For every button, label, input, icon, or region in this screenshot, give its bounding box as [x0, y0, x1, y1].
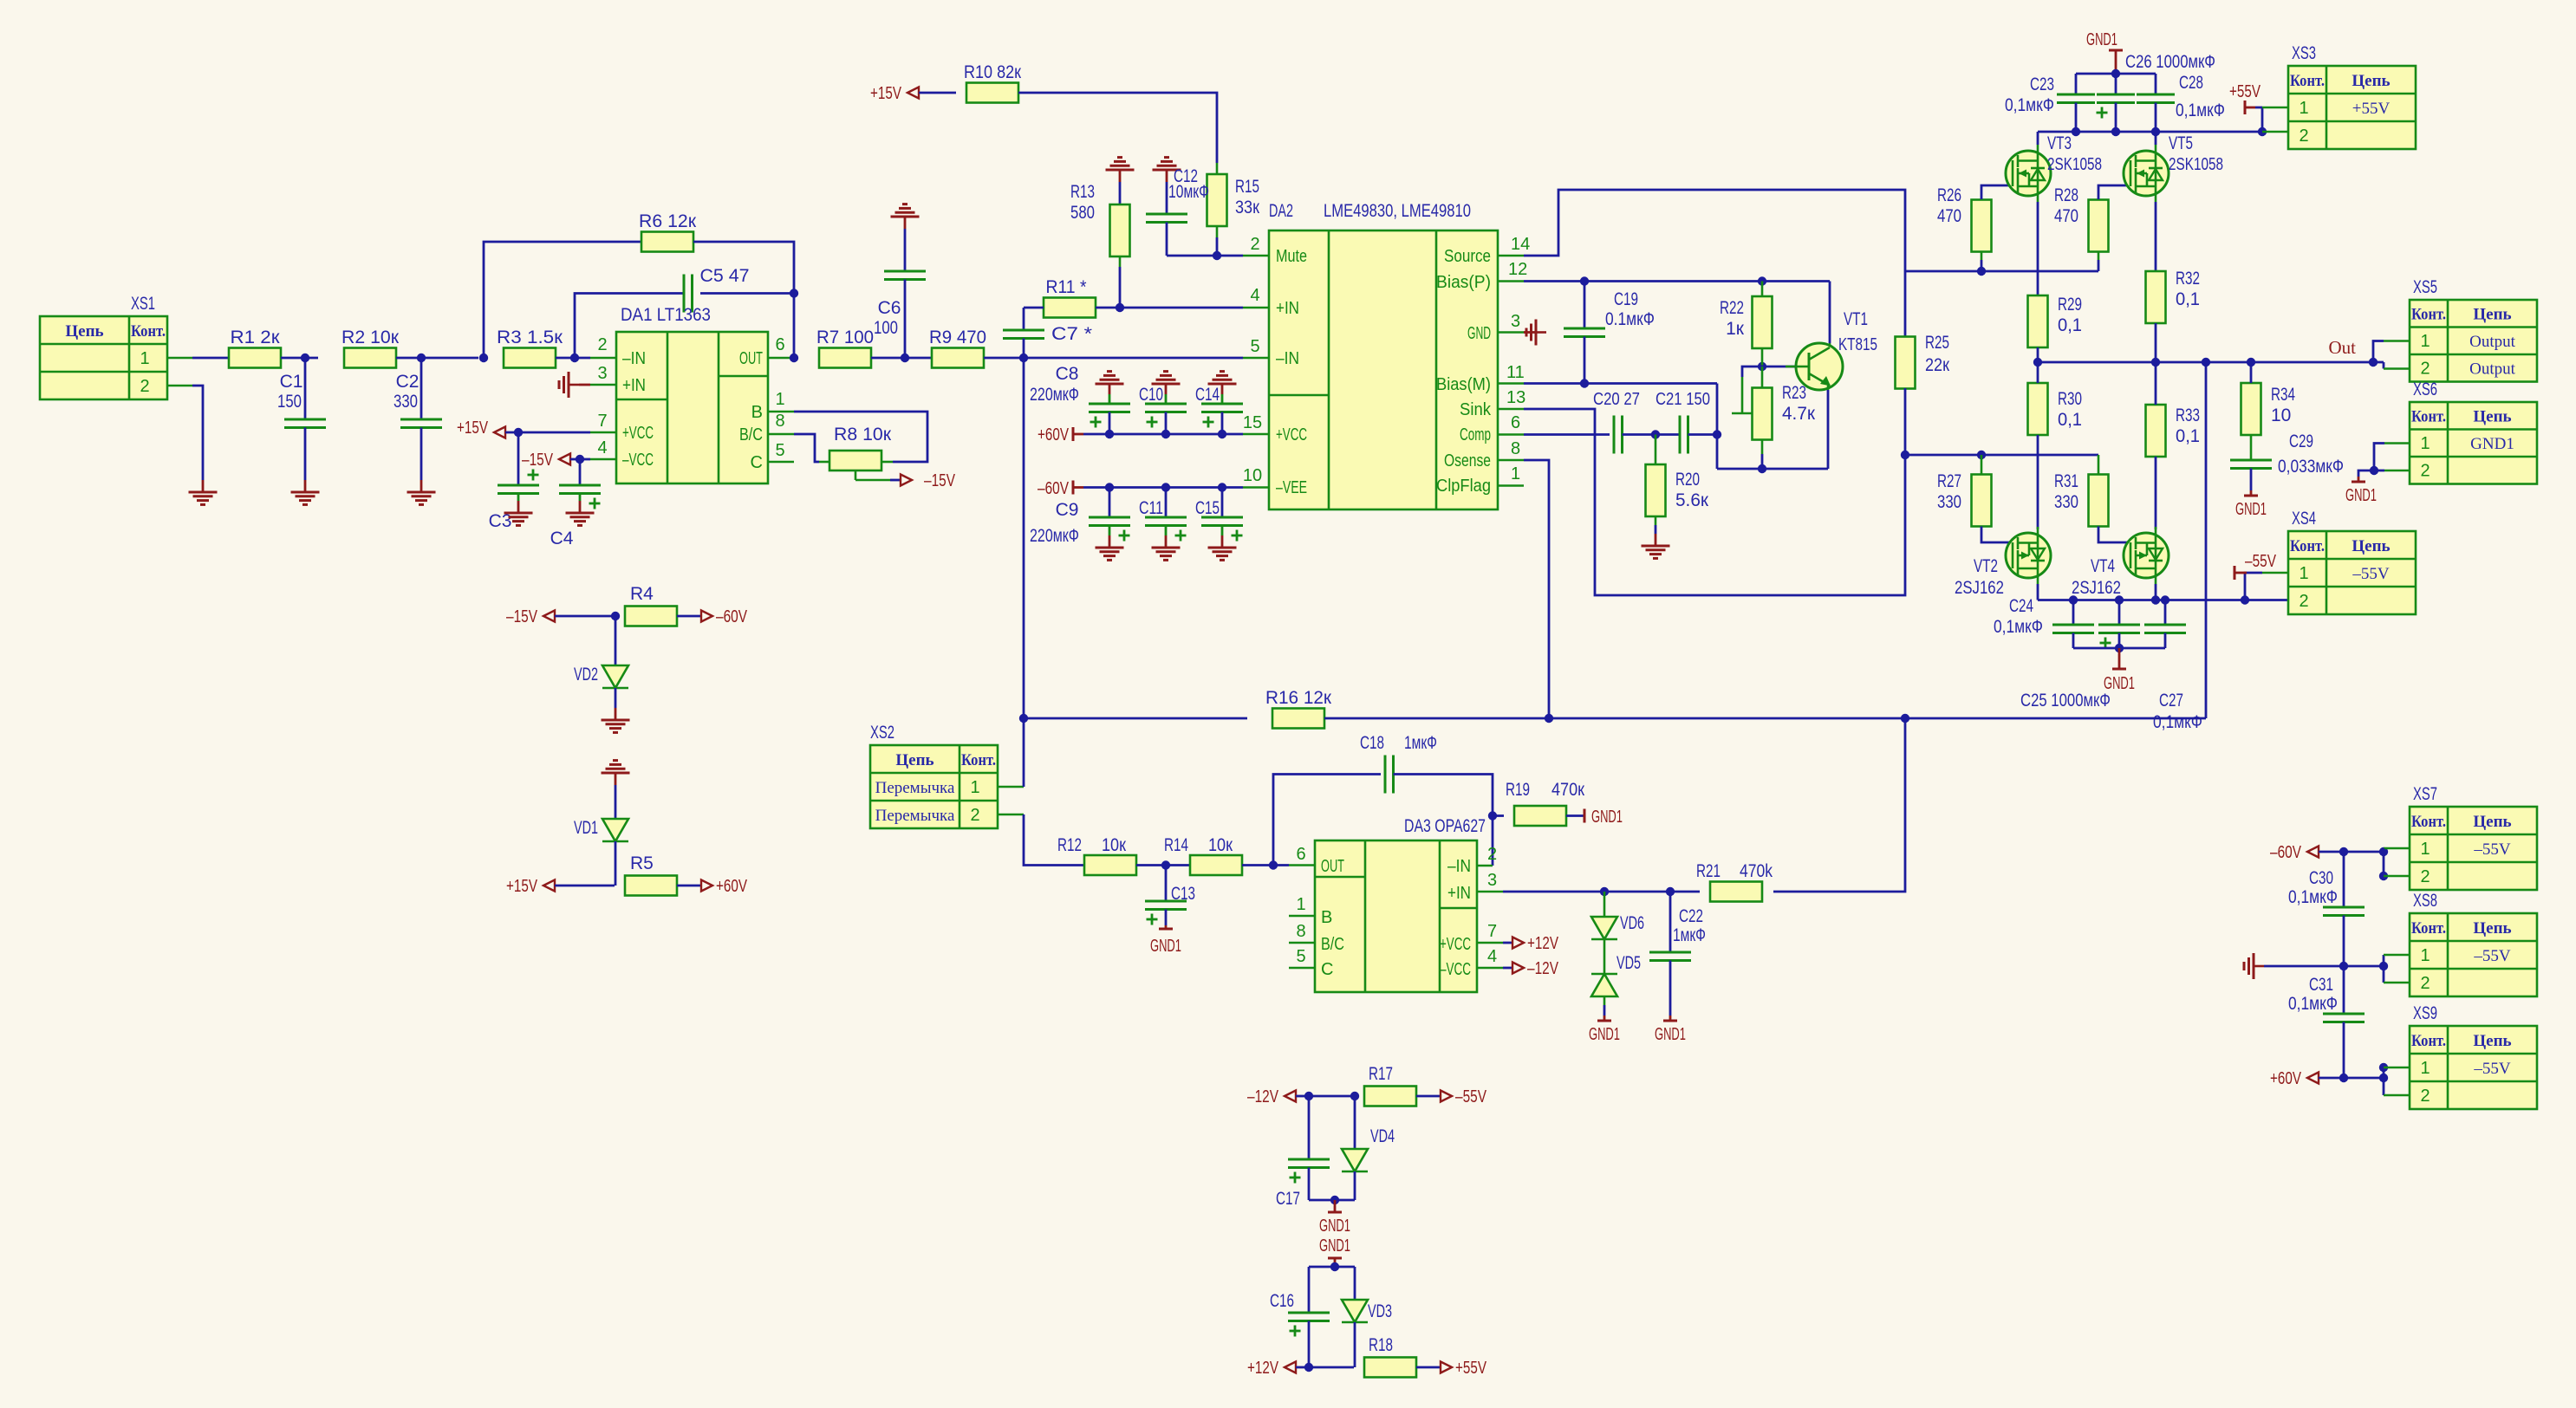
svg-text:C: C	[751, 453, 763, 472]
svg-text:470: 470	[1937, 206, 1961, 226]
svg-text:5: 5	[775, 441, 784, 460]
ground for C2	[407, 491, 436, 494]
svg-text:VD4: VD4	[1370, 1126, 1395, 1146]
svg-text:XS3: XS3	[2292, 43, 2316, 63]
svg-text:DA3 OPA627: DA3 OPA627	[1404, 816, 1486, 836]
capacitor C4	[579, 459, 582, 485]
svg-text:XS9: XS9	[2413, 1003, 2437, 1023]
svg-text:R1 2к: R1 2к	[231, 328, 281, 347]
svg-text:7: 7	[597, 412, 607, 431]
wire DA1 OUT to R7	[768, 357, 794, 360]
resistor R31 vertical	[2089, 475, 2109, 527]
svg-text:Конт.: Конт.	[131, 322, 166, 341]
svg-text:R4: R4	[630, 584, 654, 604]
wire R19 line	[1493, 814, 1504, 817]
svg-text:2: 2	[2420, 360, 2430, 379]
resistor R2	[344, 348, 396, 368]
resistor R5	[625, 876, 677, 896]
wire C5 right leg	[700, 292, 794, 295]
svg-text:XS6: XS6	[2413, 380, 2437, 399]
svg-text:2: 2	[597, 335, 607, 354]
svg-text:10мкФ: 10мкФ	[1168, 182, 1209, 202]
diode VD1	[615, 773, 617, 785]
wire Bias(M) pin11	[1498, 382, 1524, 385]
svg-text:C5 47: C5 47	[700, 266, 750, 286]
svg-text:R33: R33	[2176, 406, 2200, 425]
connector XS7	[2410, 807, 2537, 890]
wire DA1 pin8 B/C to R8	[768, 433, 794, 436]
svg-text:R22: R22	[1720, 298, 1744, 318]
wire Sink pin13	[1498, 408, 1524, 411]
svg-text:8: 8	[775, 412, 784, 431]
svg-text:GND1: GND1	[1150, 937, 1181, 956]
capacitor C6 with ground above	[891, 216, 920, 218]
svg-text:Конт.: Конт.	[2411, 1032, 2446, 1050]
svg-text:C4: C4	[550, 529, 574, 548]
GND1 under C29	[2244, 495, 2258, 497]
wire C21 to emitter node	[1688, 433, 1718, 436]
capacitor C17 polarized	[1308, 1096, 1311, 1159]
svg-text:Source: Source	[1444, 247, 1491, 266]
svg-text:VD2: VD2	[574, 665, 598, 685]
svg-text:OUT: OUT	[1321, 857, 1344, 876]
wire R11 left to C7 node	[1024, 307, 1044, 309]
wire C5 left leg	[575, 294, 684, 359]
capacitor C27	[2164, 600, 2167, 626]
svg-text:6: 6	[1296, 845, 1305, 864]
-55V rail	[2038, 599, 2288, 601]
gate bias rail top	[1905, 270, 2098, 273]
svg-text:R19: R19	[1506, 780, 1530, 800]
wire R15 bottom to Mute line	[1216, 226, 1219, 237]
svg-text:–60V: –60V	[1038, 479, 1070, 498]
ground above C12	[1153, 169, 1181, 172]
svg-text:2: 2	[2299, 592, 2308, 611]
gate bias rail bottom	[1905, 454, 2098, 457]
junction node C1	[301, 354, 309, 362]
svg-text:–60V: –60V	[716, 607, 748, 626]
svg-text:GND1: GND1	[1319, 1236, 1350, 1256]
wire to XS3 pin1	[2261, 107, 2264, 132]
wire Bias(P) corner down to VT1 collector	[1829, 282, 1831, 344]
capacitor C21	[1679, 416, 1682, 454]
wire DA3 -IN pin2	[1477, 865, 1493, 867]
svg-text:5: 5	[1250, 337, 1259, 356]
svg-text:C27: C27	[2159, 691, 2183, 710]
junction R13-+IN	[1116, 303, 1124, 312]
svg-text:1: 1	[2420, 434, 2430, 453]
capacitor C1	[304, 358, 307, 419]
wire XS1 pin1 to R1	[167, 357, 192, 360]
svg-text:+IN: +IN	[1276, 299, 1299, 318]
svg-text:VD5: VD5	[1617, 953, 1641, 973]
svg-text:–IN: –IN	[1276, 349, 1299, 368]
svg-text:B: B	[1321, 908, 1332, 927]
resistor R1	[229, 348, 281, 368]
wire XS6 pins to GND1	[2384, 442, 2410, 444]
resistor R26 vertical	[1972, 200, 1992, 252]
resistor R17	[1354, 1095, 1355, 1098]
+55V arrow right of R18	[1416, 1366, 1441, 1369]
svg-text:C14: C14	[1195, 385, 1220, 405]
svg-text:–VCC: –VCC	[1440, 960, 1471, 979]
svg-text:1: 1	[140, 349, 149, 368]
svg-text:C17: C17	[1276, 1189, 1300, 1209]
svg-text:C28: C28	[2179, 73, 2203, 93]
GND1 below C17/VD4	[1309, 1199, 1355, 1202]
junction R4-VD2	[611, 612, 620, 620]
svg-text:1: 1	[2420, 332, 2430, 351]
svg-text:C2: C2	[396, 372, 420, 392]
wire VT5 source down to R32	[2155, 202, 2157, 272]
svg-text:R13: R13	[1070, 182, 1095, 202]
wire DA3 +VCC to +12V	[1477, 942, 1503, 944]
wire Out to XS5	[2373, 341, 2384, 363]
resistor R10 82k	[966, 83, 1018, 103]
svg-text:470k: 470k	[1740, 861, 1773, 881]
wire VD5 to GND1	[1603, 996, 1606, 1005]
svg-text:Цепь: Цепь	[2352, 537, 2390, 555]
wire R20 bottom to ground	[1655, 516, 1657, 525]
svg-text:14: 14	[1511, 235, 1530, 254]
svg-text:+IN: +IN	[1447, 884, 1471, 903]
IC DA3 OPA627	[1315, 840, 1477, 992]
svg-text:Перемычка: Перемычка	[875, 807, 955, 825]
svg-text:0,1мкФ: 0,1мкФ	[2176, 101, 2225, 120]
wire DA3 -VCC to -12V	[1477, 967, 1503, 970]
wire VT4 drain to -55V rail	[2155, 584, 2157, 600]
junction node feedback R6	[479, 354, 488, 362]
wire R28 top to VT5 gate	[2098, 185, 2130, 199]
capacitor C5	[683, 275, 686, 313]
svg-text:Цепь: Цепь	[2473, 813, 2511, 831]
MOSFET VT5 2SK1058	[2124, 151, 2169, 196]
wire R29 bottom to Out line	[2037, 347, 2039, 362]
svg-text:Comp: Comp	[1460, 425, 1491, 444]
svg-text:B/C: B/C	[739, 425, 763, 444]
svg-text:+55V: +55V	[1455, 1359, 1487, 1378]
MOSFET VT2 2SJ162	[2006, 533, 2051, 578]
svg-text:–15V: –15V	[924, 471, 956, 490]
junction node C5 left	[570, 354, 579, 362]
svg-text:Bias(M): Bias(M)	[1436, 375, 1491, 394]
connector XS6	[2410, 402, 2537, 484]
svg-text:R8 10к: R8 10к	[834, 425, 892, 444]
wire R3 to DA1 -IN	[556, 357, 590, 360]
junction C19 bottom	[1580, 379, 1589, 387]
svg-text:C10: C10	[1139, 385, 1163, 405]
wire R12 to R14	[1136, 864, 1190, 866]
junction C22	[1666, 887, 1675, 896]
resistor R12	[1084, 855, 1136, 875]
svg-text:0,1мкФ: 0,1мкФ	[2288, 887, 2338, 907]
svg-text:C1: C1	[280, 372, 303, 392]
svg-text:C: C	[1321, 960, 1333, 979]
wire R14 to DA3 OUT	[1242, 864, 1289, 866]
svg-text:B/C: B/C	[1321, 935, 1344, 954]
svg-text:8: 8	[1296, 922, 1305, 941]
svg-text:LME49830, LME49810: LME49830, LME49810	[1324, 201, 1471, 221]
svg-text:GND1: GND1	[2086, 30, 2117, 49]
resistor R33 vertical	[2146, 405, 2166, 457]
svg-text:R25: R25	[1925, 333, 1949, 353]
op-amp DA1 LT1363	[616, 332, 768, 483]
capacitor C19	[1584, 282, 1586, 329]
svg-text:C18: C18	[1360, 733, 1384, 753]
junction R19 branch	[1488, 811, 1497, 820]
svg-text:+VCC: +VCC	[1440, 935, 1471, 954]
svg-text:0,1: 0,1	[2058, 410, 2082, 430]
junction C5-R6 vertical	[790, 289, 798, 297]
capacitor C24	[2072, 600, 2075, 626]
wire R28 bottom to rail	[2098, 252, 2100, 260]
svg-text:R17: R17	[1369, 1064, 1393, 1084]
ground for C4	[566, 512, 595, 515]
capacitor C13 polarized	[1165, 866, 1168, 902]
junction C6	[901, 354, 909, 362]
svg-text:1: 1	[2299, 99, 2308, 118]
svg-text:C21 150: C21 150	[1656, 390, 1710, 409]
svg-text:0,1: 0,1	[2176, 426, 2200, 446]
wire XS2 pin2 down to R12	[998, 814, 1024, 816]
junction C13	[1161, 860, 1170, 869]
chassis ground to XS8	[2253, 953, 2255, 979]
svg-text:–12V: –12V	[1247, 1087, 1279, 1106]
ground chassis for DA2 GND pin3	[1498, 331, 1524, 334]
svg-text:–12V: –12V	[1527, 959, 1559, 978]
resistor R15 vertical	[1207, 174, 1227, 226]
wire feedback down to R21 line	[1773, 718, 1905, 892]
wire DA3 +IN pin3	[1477, 891, 1503, 893]
svg-text:C13: C13	[1171, 884, 1195, 904]
svg-text:5: 5	[1296, 947, 1305, 966]
svg-text:4: 4	[1250, 286, 1259, 305]
svg-text:2SK1058: 2SK1058	[2047, 155, 2102, 174]
svg-text:5.6к: 5.6к	[1675, 490, 1709, 510]
capacitor C23	[2075, 74, 2078, 94]
junction R15-Mute	[1213, 251, 1221, 260]
svg-text:12: 12	[1508, 260, 1527, 279]
svg-text:R7 100: R7 100	[816, 328, 874, 347]
wire R32 bottom to Out line	[2155, 323, 2157, 362]
MOSFET VT4 2SJ162	[2124, 533, 2169, 578]
svg-text:C23: C23	[2030, 75, 2054, 94]
wire R2 to R3	[396, 357, 478, 360]
svg-text:C22: C22	[1679, 906, 1703, 926]
svg-text:R20: R20	[1675, 470, 1700, 490]
svg-text:+15V: +15V	[506, 877, 538, 896]
diode VD6	[1603, 892, 1606, 917]
svg-text:XS4: XS4	[2292, 509, 2316, 529]
svg-text:0,1: 0,1	[2058, 315, 2082, 335]
svg-text:R27: R27	[1937, 471, 1961, 491]
svg-text:C19: C19	[1614, 289, 1638, 309]
wire +IN line to DA2	[1120, 307, 1243, 309]
svg-text:C29: C29	[2289, 431, 2313, 451]
svg-text:R23: R23	[1782, 383, 1806, 403]
wire R31 bottom to VT4 gate	[2098, 527, 2130, 543]
wire base to VT1	[1762, 366, 1796, 368]
ground above R13	[1106, 169, 1135, 172]
junction C19 top	[1580, 276, 1589, 285]
svg-text:VD3: VD3	[1368, 1301, 1392, 1321]
capacitor C12	[1166, 170, 1168, 182]
svg-text:+12V: +12V	[1527, 934, 1559, 953]
svg-text:2: 2	[1487, 845, 1497, 864]
resistor R28 vertical	[2089, 200, 2109, 252]
svg-text:–55V: –55V	[1455, 1087, 1487, 1106]
svg-text:–60V: –60V	[2270, 843, 2302, 862]
wire R6 feedback left leg	[484, 242, 641, 358]
svg-text:100: 100	[874, 318, 898, 338]
svg-text:C6: C6	[878, 298, 901, 318]
svg-text:Output: Output	[2469, 360, 2516, 379]
svg-text:C11: C11	[1139, 498, 1163, 518]
capacitor C25 polarized	[2118, 600, 2121, 626]
wire R11 right	[1096, 307, 1120, 309]
GND1 under C22	[1663, 1020, 1677, 1022]
feedback line R16	[1023, 358, 1025, 718]
svg-text:Out: Out	[2329, 337, 2357, 358]
svg-text:–55V: –55V	[2473, 1060, 2511, 1078]
resistor R23 vertical (trimmer)	[1753, 388, 1773, 440]
wire R26 top to VT3 gate	[1981, 185, 2013, 199]
svg-text:–IN: –IN	[622, 349, 646, 368]
svg-text:R12: R12	[1057, 835, 1082, 855]
svg-text:330: 330	[1937, 492, 1961, 512]
+55V supply rail	[2038, 131, 2262, 133]
svg-text:Цепь: Цепь	[2473, 408, 2511, 426]
svg-text:3: 3	[1487, 871, 1497, 890]
svg-text:R28: R28	[2054, 185, 2078, 205]
svg-text:470к: 470к	[1551, 780, 1585, 800]
svg-text:0,1: 0,1	[2176, 289, 2200, 309]
wire Mute line	[1167, 255, 1243, 257]
svg-text:C9: C9	[1056, 500, 1079, 520]
resistor R16	[1272, 709, 1324, 729]
svg-text:Цепь: Цепь	[2352, 72, 2390, 90]
svg-text:0,1мкФ: 0,1мкФ	[2153, 712, 2202, 732]
svg-text:1: 1	[1511, 464, 1520, 483]
ground for XS1 pin2	[189, 491, 218, 494]
svg-text:GND1: GND1	[2235, 500, 2267, 519]
svg-text:VT4: VT4	[2091, 556, 2115, 576]
svg-text:2: 2	[2420, 1087, 2430, 1106]
capacitor C30	[2343, 852, 2345, 907]
svg-text:0,1мкФ: 0,1мкФ	[2288, 994, 2338, 1014]
wire VT3 source down to R29	[2037, 202, 2039, 295]
+60V arrow right of R5	[677, 885, 702, 887]
svg-text:VT5: VT5	[2169, 133, 2193, 153]
svg-text:11: 11	[1506, 363, 1525, 382]
svg-text:8: 8	[1511, 439, 1520, 458]
svg-text:GND1: GND1	[2345, 486, 2377, 505]
wire C18 left leg	[1273, 775, 1381, 866]
junction C18 left	[1269, 860, 1278, 869]
svg-text:R3 1.5к: R3 1.5к	[497, 328, 563, 347]
svg-text:+VCC: +VCC	[622, 424, 654, 443]
svg-text:2SK1058: 2SK1058	[2169, 155, 2223, 174]
diode VD3	[1354, 1267, 1356, 1300]
svg-text:Конт.: Конт.	[2290, 537, 2325, 555]
svg-text:VD6: VD6	[1620, 913, 1644, 933]
svg-text:+12V: +12V	[1247, 1359, 1279, 1378]
svg-text:3: 3	[1511, 312, 1520, 331]
top cap rail	[2076, 73, 2156, 75]
svg-text:2: 2	[2420, 462, 2430, 481]
svg-text:Цепь: Цепь	[895, 751, 933, 769]
svg-text:220мкФ: 220мкФ	[1030, 526, 1079, 546]
svg-text:+IN: +IN	[622, 376, 646, 395]
svg-text:R18: R18	[1369, 1335, 1393, 1355]
svg-text:GND: GND	[1467, 324, 1491, 343]
pin 5 stub DA1	[768, 461, 794, 464]
capacitor C18	[1384, 756, 1387, 794]
svg-text:+60V: +60V	[1038, 425, 1070, 444]
resistor R18	[1364, 1358, 1416, 1378]
resistor R29 vertical	[2028, 295, 2048, 347]
svg-text:Цепь: Цепь	[2473, 1032, 2511, 1050]
resistor R6	[641, 232, 693, 252]
svg-text:330: 330	[394, 392, 418, 412]
svg-text:Цепь: Цепь	[2473, 306, 2511, 324]
svg-text:2SJ162: 2SJ162	[1955, 578, 2004, 598]
svg-text:2: 2	[2420, 867, 2430, 886]
emitter bus	[1717, 468, 1828, 470]
resistor R7	[819, 348, 871, 368]
svg-text:2: 2	[140, 377, 149, 396]
wire XS2 pin1 to -IN node vertical	[998, 786, 1024, 788]
svg-text:C31: C31	[2309, 975, 2333, 995]
capacitor C7 vertical	[1023, 308, 1025, 330]
svg-text:Конт.: Конт.	[961, 751, 996, 769]
wire R6 right to OUT node	[693, 242, 794, 358]
resistor R34 vertical	[2241, 383, 2261, 435]
resistor R25 vertical	[1904, 271, 1907, 337]
svg-text:10: 10	[2271, 406, 2291, 425]
capacitor C20	[1613, 416, 1616, 454]
junction VD6	[1600, 887, 1609, 896]
svg-text:0,1мкФ: 0,1мкФ	[2005, 95, 2054, 115]
wire Out feedback vertical	[2205, 362, 2208, 718]
capacitor C15 with ground below	[1218, 483, 1226, 491]
-60V arrow right of R4	[677, 615, 702, 618]
svg-text:–55V: –55V	[2245, 552, 2277, 571]
svg-text:R15: R15	[1235, 177, 1259, 197]
resistor R9	[932, 348, 984, 368]
svg-text:XS1: XS1	[131, 294, 155, 314]
connector XS4	[2288, 531, 2416, 614]
wire R8 bottom to -15V	[855, 470, 857, 480]
transistor VT1 KT815	[1796, 343, 1843, 390]
svg-text:1: 1	[2420, 1059, 2430, 1078]
svg-text:R5: R5	[630, 853, 654, 873]
Out line	[2038, 361, 2373, 364]
svg-text:–55V: –55V	[2352, 565, 2390, 583]
capacitor C2	[420, 358, 423, 419]
capacitor C8 with ground above	[1105, 430, 1114, 438]
svg-text:1: 1	[970, 778, 979, 797]
svg-text:+60V: +60V	[716, 877, 748, 896]
MOSFET VT3 2SK1058	[2006, 151, 2051, 196]
connector XS5	[2410, 300, 2537, 382]
svg-text:R21: R21	[1696, 861, 1721, 881]
svg-text:C16: C16	[1270, 1291, 1294, 1311]
svg-text:GND1: GND1	[1319, 1217, 1350, 1236]
svg-text:Osense: Osense	[1444, 451, 1491, 470]
svg-text:R2 10к: R2 10к	[342, 328, 400, 347]
ground for C1	[291, 491, 320, 494]
